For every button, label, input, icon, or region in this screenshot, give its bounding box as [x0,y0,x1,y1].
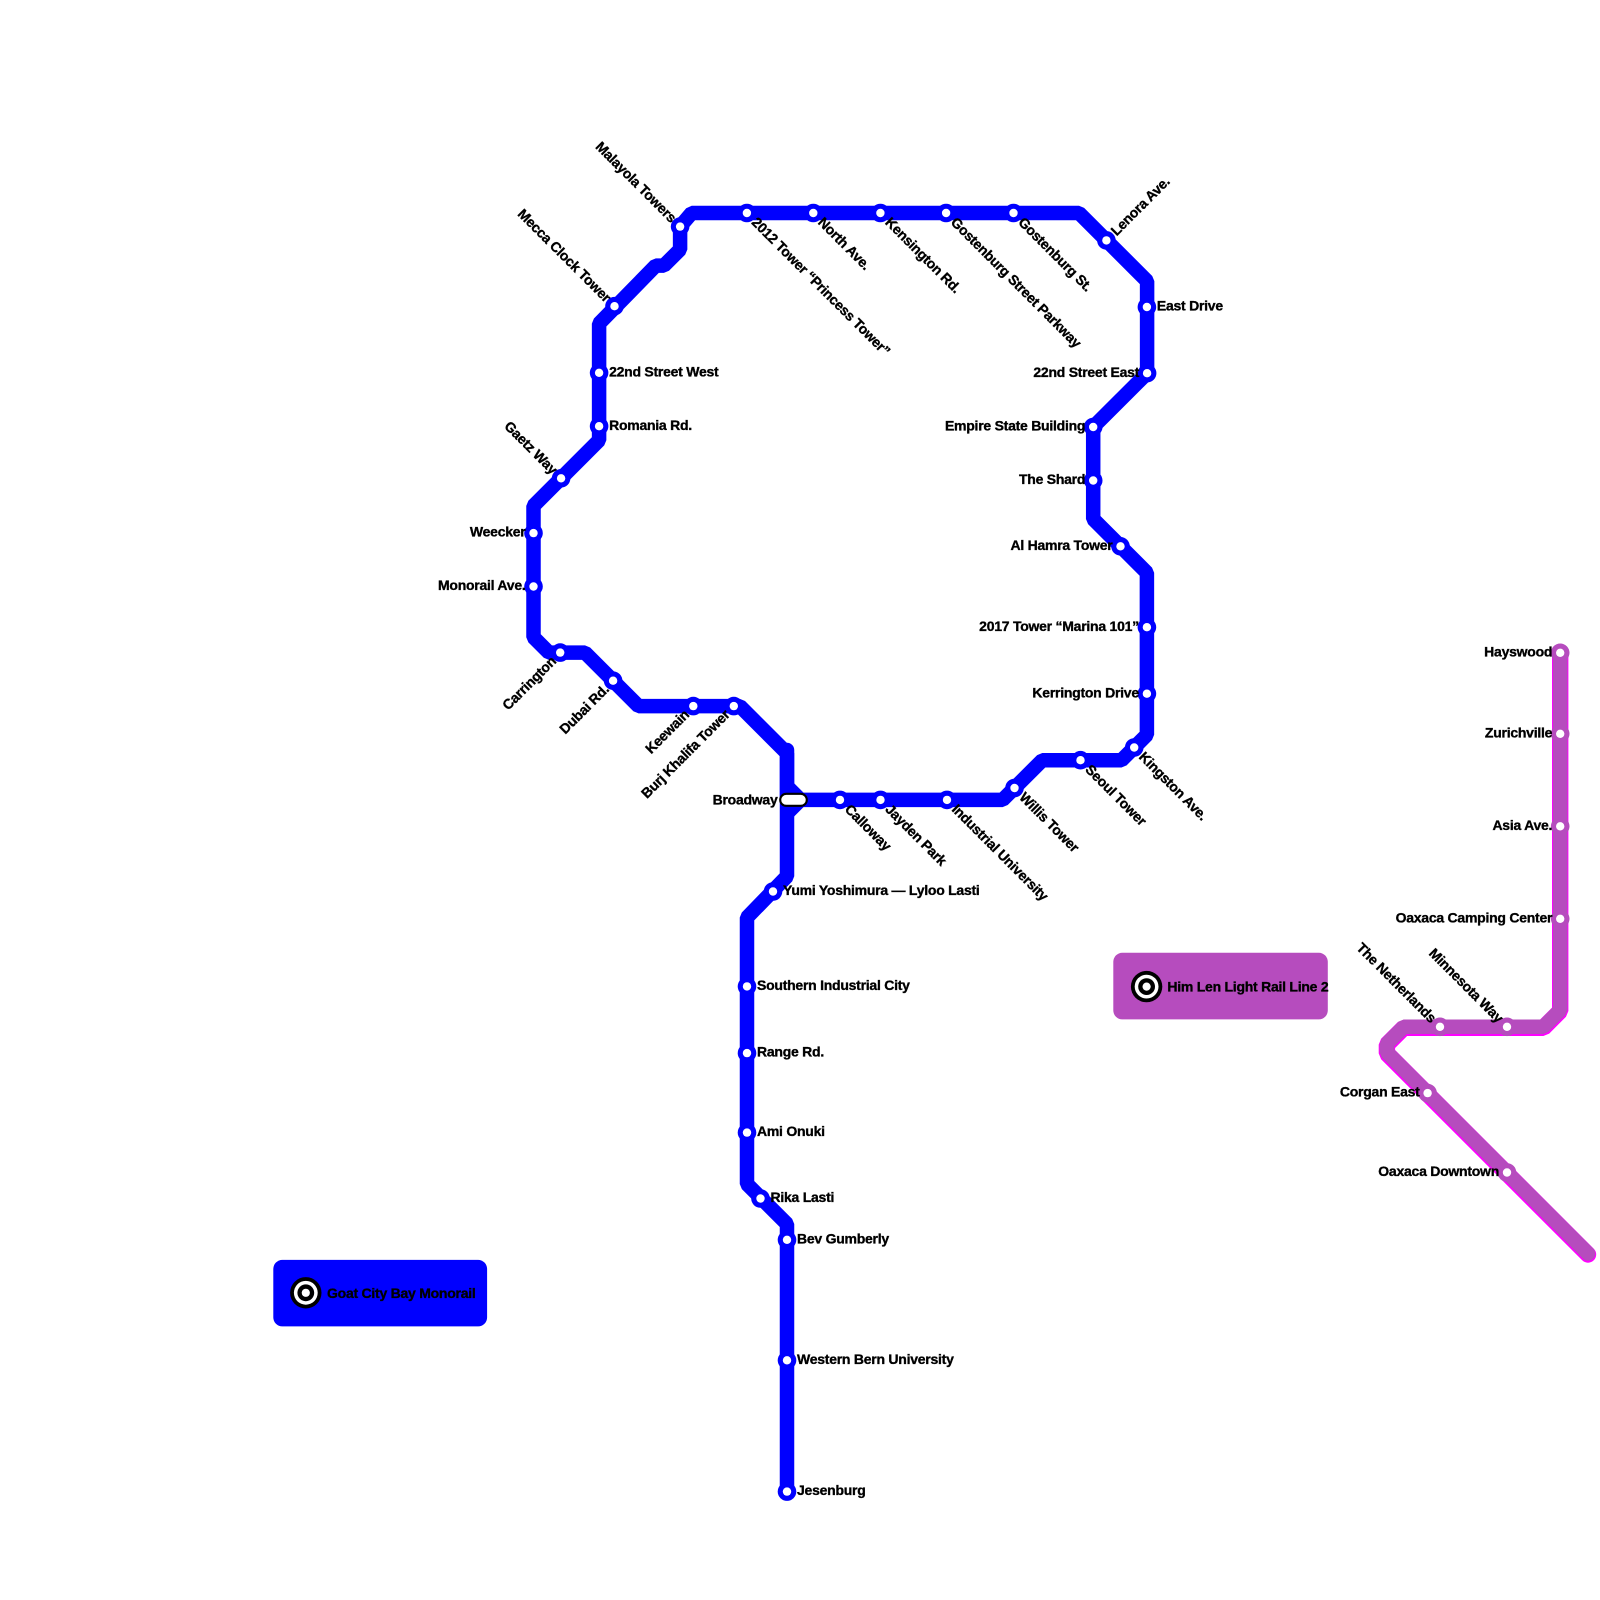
station Carrington [551,643,570,662]
station 2017 Tower Marina 101 [1138,618,1157,637]
station Calloway [831,791,850,810]
station Weecker [524,524,543,543]
svg-text:Broadway: Broadway [713,792,778,808]
station Monorail Ave. [524,577,543,596]
station 22nd Street West [590,364,609,383]
station Mecca Clock Tower [605,297,624,316]
station Malayola Towers [671,217,690,236]
station Willis Tower [1005,779,1024,798]
station Keewain [684,697,703,716]
svg-text:22nd Street East: 22nd Street East [1033,364,1139,380]
svg-text:Western Bern University: Western Bern University [797,1351,954,1367]
svg-text:Asia Ave.: Asia Ave. [1492,817,1552,833]
svg-text:22nd Street West: 22nd Street West [609,363,719,379]
svg-text:Hayswood: Hayswood [1484,643,1552,659]
station 2012 Tower Princess Tower [738,204,757,223]
svg-text:Kerrington Drive: Kerrington Drive [1032,684,1139,700]
station Dubai Rd. [604,671,623,690]
svg-text:Oaxaca Downtown: Oaxaca Downtown [1378,1163,1499,1179]
svg-text:Yumi Yoshimura — Lyloo Lasti: Yumi Yoshimura — Lyloo Lasti [783,882,980,898]
station Kensington Rd. [871,204,890,223]
station Gostenburg St. [1004,204,1023,223]
station Rika Lasti [751,1189,770,1208]
station Broadway interchange pill [780,794,807,806]
svg-text:Oaxaca Camping Center: Oaxaca Camping Center [1396,909,1553,925]
station Gostenburg Street Parkway [937,204,956,223]
station Western Bern University [778,1351,797,1370]
svg-text:Corgan East: Corgan East [1340,1084,1420,1100]
svg-text:The Shard: The Shard [1019,471,1085,487]
svg-text:Jesenburg: Jesenburg [797,1482,866,1498]
svg-text:Weecker: Weecker [470,524,526,540]
station Minnesota Way [1498,1018,1517,1037]
station Seoul Tower [1071,751,1090,770]
svg-text:Ami Onuki: Ami Onuki [757,1123,825,1139]
station Romania Rd. [590,417,609,436]
line Him Len Light Rail Line 2 [1387,653,1588,1254]
station Jesenburg [778,1482,797,1501]
station 22nd Street East [1138,364,1157,383]
station Kingston Ave. [1125,738,1144,757]
svg-text:Zurichville: Zurichville [1485,724,1553,740]
line Goat City Bay Monorail branch to Jesenburg [747,750,787,1492]
station North Ave. [804,204,823,223]
svg-text:Goat City Bay Monorail: Goat City Bay Monorail [327,1285,476,1301]
station Oaxaca Downtown [1498,1163,1517,1182]
station Zurichville [1551,725,1570,744]
station Gaetz Way [552,469,571,488]
station Ami Onuki [738,1123,757,1142]
station Yumi Yoshimura [764,882,783,901]
station The Netherlands [1431,1018,1450,1037]
svg-text:2017 Tower “Marina 101”: 2017 Tower “Marina 101” [979,618,1139,634]
svg-text:Al Hamra Tower: Al Hamra Tower [1010,537,1113,553]
station Burj Khalifa Tower [725,697,744,716]
svg-text:East Drive: East Drive [1157,298,1223,314]
station East Drive [1138,298,1157,317]
station Al Hamra Tower [1111,537,1130,556]
svg-text:Romania Rd.: Romania Rd. [609,417,692,433]
legend Him Len Light Rail Line 2 bullseye [1131,971,1162,1002]
station Lenora Ave. [1097,231,1116,250]
legend Goat City Bay Monorail bullseye [290,1277,321,1308]
svg-text:Southern Industrial City: Southern Industrial City [757,977,910,993]
station Bev Gumberly [778,1231,797,1250]
station Kerrington Drive [1138,684,1157,703]
svg-text:Him Len Light Rail Line 2: Him Len Light Rail Line 2 [1167,979,1328,995]
legend Goat City Bay Monorail box [273,1260,487,1327]
wire Broadway junction chamfers [787,786,801,813]
station Oaxaca Camping Center [1551,910,1570,929]
station The Shard [1084,471,1103,490]
svg-text:Monorail Ave.: Monorail Ave. [438,577,526,593]
svg-text:Rika Lasti: Rika Lasti [771,1189,835,1205]
svg-text:Empire State Building: Empire State Building [945,418,1085,434]
station Asia Ave. [1551,817,1570,836]
station Hayswood [1551,644,1570,663]
line Goat City Bay Monorail loop [534,213,1148,800]
station Range Rd. [738,1044,757,1063]
line Him Len Light Rail Line 2 magenta underlay [1387,654,1588,1255]
station Industrial University [938,791,957,810]
legend Him Len Light Rail Line 2 box [1113,953,1328,1020]
station Southern Industrial City [738,977,757,996]
svg-text:Bev Gumberly: Bev Gumberly [797,1230,889,1246]
station Corgan East [1418,1084,1437,1103]
station Empire State Building [1084,418,1103,437]
svg-text:Range Rd.: Range Rd. [757,1044,824,1060]
station Jayden Park [871,791,890,810]
